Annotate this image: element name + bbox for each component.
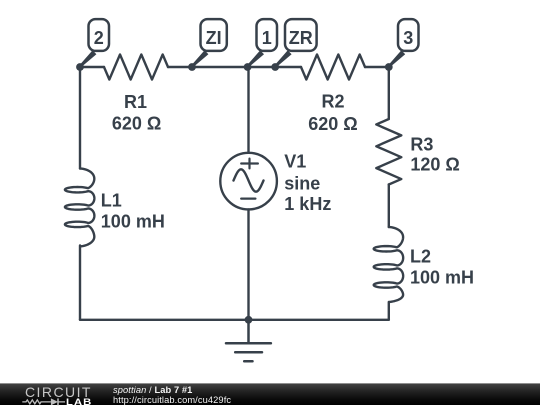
node 1 box <box>257 19 278 51</box>
svg-text:ZI: ZI <box>206 28 222 48</box>
junction ZI dot <box>188 63 196 71</box>
svg-text:R3: R3 <box>410 135 433 155</box>
svg-text:V1: V1 <box>284 152 306 172</box>
wire left vertical lower <box>79 246 81 320</box>
svg-text:L1: L1 <box>101 191 122 211</box>
svg-text:2: 2 <box>94 28 104 48</box>
wire center lower <box>247 209 249 319</box>
node 2 box <box>89 19 110 51</box>
wire bottom <box>80 319 389 321</box>
pointer wedge ZI <box>191 50 208 67</box>
voltage source V1 circle <box>220 153 277 210</box>
svg-text:100 mH: 100 mH <box>410 268 474 288</box>
CircuitLab logo LAB <box>66 398 92 407</box>
footer url text <box>113 396 231 405</box>
pointer wedge node 2 <box>79 50 96 67</box>
wire center upper <box>247 67 249 153</box>
junction node 2 dot <box>76 63 84 71</box>
footer title text <box>113 386 192 395</box>
pointer wedge node 3 <box>388 50 405 67</box>
wire top left segment <box>80 66 104 68</box>
svg-text:620 Ω: 620 Ω <box>308 114 357 134</box>
junction node 1 dot <box>244 63 252 71</box>
CircuitLab logo wordmark <box>25 385 92 399</box>
inductor L1 <box>65 169 94 247</box>
node ZR box <box>285 19 317 51</box>
footer bar <box>0 383 540 405</box>
junction ground dot <box>245 316 253 324</box>
pointer wedge ZR <box>274 50 291 67</box>
CircuitLab logo circuit glyph <box>21 396 71 408</box>
wire right vertical lower <box>388 302 390 320</box>
resistor R3 <box>376 119 401 185</box>
resistor R1 <box>104 55 168 80</box>
svg-text:ZR: ZR <box>289 28 313 48</box>
resistor R2 <box>301 55 365 80</box>
junction ZR dot <box>271 63 279 71</box>
wire right vertical middle <box>388 185 390 228</box>
pointer wedge node 1 <box>247 50 264 67</box>
wire left vertical upper <box>79 67 81 169</box>
junction node 3 dot <box>385 63 393 71</box>
V1 minus sign <box>241 198 255 200</box>
svg-text:100 mH: 100 mH <box>101 212 165 232</box>
svg-text:R1: R1 <box>124 92 147 112</box>
inductor L2 <box>374 227 403 302</box>
wire top right segment <box>365 66 389 68</box>
wire top middle segment <box>168 66 301 68</box>
ground <box>226 320 271 362</box>
svg-text:sine: sine <box>284 173 320 193</box>
V1 plus sign <box>241 159 258 169</box>
svg-text:620 Ω: 620 Ω <box>112 114 161 134</box>
svg-text:120 Ω: 120 Ω <box>410 155 459 175</box>
node 3 box <box>398 19 419 51</box>
node ZI box <box>201 19 227 51</box>
wire right vertical upper <box>388 67 390 119</box>
V1 sine wave <box>234 169 264 191</box>
svg-text:3: 3 <box>403 28 413 48</box>
svg-text:1: 1 <box>262 28 272 48</box>
svg-text:1 kHz: 1 kHz <box>284 194 331 214</box>
svg-text:R2: R2 <box>321 92 344 112</box>
svg-text:L2: L2 <box>410 247 431 267</box>
